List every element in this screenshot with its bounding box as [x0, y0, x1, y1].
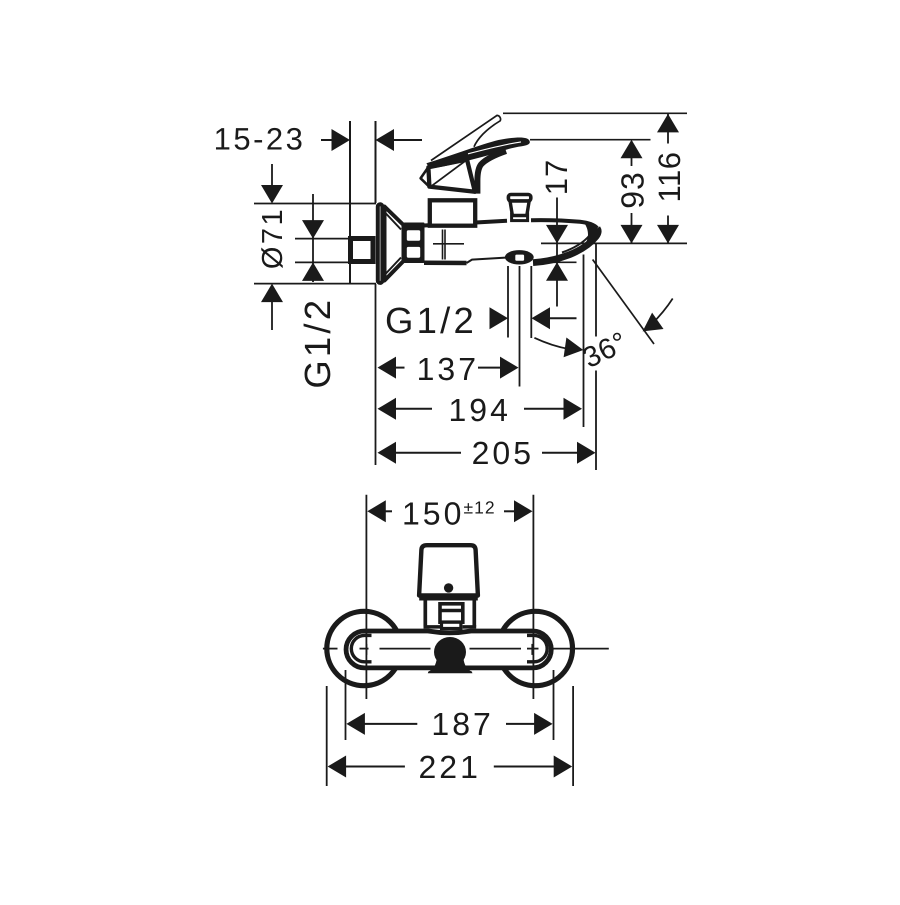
- dim 150 right stub: [504, 510, 515, 512]
- centerline segment a: [323, 648, 338, 650]
- dim 137 arrow left: [378, 357, 397, 379]
- svg-text:205: 205: [472, 435, 534, 471]
- dim G1/2 outlet arrow left: [532, 307, 551, 329]
- dim 187 extension line right: [553, 670, 555, 740]
- aerator: [505, 250, 534, 264]
- wall line right upper: [375, 121, 377, 203]
- dim 93 line lower: [631, 213, 633, 243]
- dim 116 arrow up: [657, 114, 679, 132]
- dim 15-23 text: [214, 122, 306, 157]
- dim 17 leader line: [556, 198, 558, 307]
- dim 93 line upper: [631, 141, 633, 166]
- centerline segment f: [550, 648, 609, 650]
- handle front dot: [444, 583, 453, 592]
- dim 187 right stub: [506, 723, 536, 725]
- lever base joint line b: [421, 167, 430, 187]
- dim 187 arrow left: [346, 713, 365, 735]
- reference line handle closed top: [530, 139, 651, 141]
- dim 221 right stub: [494, 766, 555, 768]
- dim G1/2 wall arrow up: [302, 262, 324, 281]
- dim 194 arrow left: [378, 398, 397, 420]
- dim 15-23 line right stub: [392, 139, 422, 141]
- reference line outlet bottom: [533, 261, 577, 263]
- dim 221 extension line left: [326, 686, 328, 786]
- dim 150 extension line right: [532, 495, 534, 699]
- svg-text:17: 17: [539, 159, 574, 195]
- dim 221 arrow right: [554, 756, 573, 778]
- dim 93 arrow up: [621, 140, 643, 159]
- dim 137 text: [417, 351, 479, 387]
- escutcheon cone: [385, 207, 404, 281]
- dim 150 extension line left: [365, 495, 367, 699]
- dim 150 arrow left: [367, 500, 386, 522]
- diverter knob cap: [508, 195, 530, 201]
- dim Ø71 upper leader line: [271, 164, 273, 200]
- dim G1/2 wall rotated text: [297, 297, 338, 389]
- dim 116 text: [652, 152, 687, 203]
- angle 36 arc right: [651, 299, 673, 325]
- escutcheon plate: [378, 204, 383, 283]
- faucet body white fill: [424, 220, 598, 263]
- svg-text:36°: 36°: [578, 326, 633, 375]
- neck ladder rung: [440, 609, 463, 612]
- svg-text:194: 194: [449, 392, 511, 428]
- svg-text:187: 187: [431, 706, 493, 742]
- handle front parting line: [419, 596, 478, 601]
- dim 205 arrow right: [577, 442, 596, 464]
- svg-text:G1/2: G1/2: [385, 300, 477, 341]
- dim Ø71 text: [257, 207, 289, 269]
- pipe nipple through wall: [351, 239, 374, 262]
- body bottom step: [467, 258, 506, 263]
- handle front skirt side right: [472, 599, 476, 627]
- angle 36 vertical reference line: [583, 255, 585, 428]
- dim 116 line lower: [667, 216, 669, 244]
- dim 194 right stub: [524, 408, 565, 410]
- skirt bottom edge right: [463, 625, 477, 629]
- outlet center extension line: [519, 266, 521, 387]
- diverter knob body: [510, 201, 529, 216]
- handle front trapezoid: [419, 545, 478, 595]
- dim 93 arrow down: [621, 225, 643, 244]
- union circle left: [327, 611, 401, 685]
- dim 205 left stub: [394, 452, 461, 454]
- spout tip and mouth rim: [533, 228, 598, 262]
- body capsule: [346, 631, 551, 668]
- svg-text:G1/2: G1/2: [297, 297, 338, 389]
- dim 137 left stub: [394, 367, 405, 369]
- dim 93 text: [615, 171, 651, 209]
- svg-text:Ø71: Ø71: [257, 207, 289, 269]
- capsule inner arc left: [351, 635, 371, 661]
- body partition line b: [444, 230, 446, 260]
- dim Ø71 arrow up: [261, 284, 283, 303]
- outlet extension line left: [507, 266, 509, 338]
- outlet extension line right: [530, 266, 532, 338]
- centerline segment e: [527, 648, 539, 650]
- svg-text:150: 150: [402, 496, 464, 532]
- nut window upper: [407, 230, 420, 240]
- centerline tick right: [531, 644, 533, 655]
- dim 17 text: [539, 159, 574, 195]
- escutcheon cone inner line top: [385, 213, 401, 230]
- dim 205 arrow left: [378, 442, 397, 464]
- reference line spout bottom: [541, 242, 687, 244]
- dim 15-23 line left stub: [321, 139, 333, 141]
- dim G1/2 wall leader line: [312, 194, 314, 282]
- skirt bottom edge left: [424, 625, 441, 629]
- body partition line a: [442, 230, 444, 260]
- lever base joint line a: [432, 160, 467, 186]
- neck ladder: [440, 604, 463, 622]
- wall line left: [349, 121, 351, 284]
- dim 221 arrow left: [328, 756, 347, 778]
- lever handle: [426, 138, 529, 169]
- dim 221 extension line right: [572, 686, 574, 786]
- dim 187 text: [431, 706, 493, 742]
- body top edge: [424, 221, 507, 226]
- centerline tick left: [365, 644, 367, 655]
- svg-text:116: 116: [652, 152, 687, 203]
- dim 116 arrow down: [657, 225, 679, 244]
- svg-text:221: 221: [419, 749, 481, 785]
- dim 150 text: [402, 496, 496, 532]
- dim 221 text: [419, 749, 481, 785]
- escutcheon cone inner line bottom: [385, 258, 401, 275]
- dim 194 left stub: [394, 408, 432, 410]
- dim 15-23 arrow left: [376, 129, 395, 151]
- dim 205 text: [472, 435, 534, 471]
- dim Ø71 bottom extension line: [254, 283, 376, 285]
- svg-text:137: 137: [417, 351, 479, 387]
- dim 150 arrow right: [514, 500, 533, 522]
- lever band highlight: [468, 142, 521, 154]
- lever base: [428, 160, 475, 192]
- svg-text:93: 93: [615, 171, 651, 209]
- svg-text:15-23: 15-23: [214, 122, 306, 157]
- spout mouth inner line: [562, 236, 590, 253]
- svg-text:±12: ±12: [464, 498, 496, 518]
- union circle right: [498, 611, 572, 685]
- dim 205 right stub: [542, 452, 578, 454]
- dim 221 left stub: [344, 766, 405, 768]
- center union blob flare: [428, 658, 473, 673]
- angle 36 text: [578, 326, 633, 375]
- neck foot: [442, 622, 461, 628]
- wall extension line lower: [375, 284, 377, 465]
- angle 36 arc right arrowhead: [643, 313, 664, 332]
- reference line handle raised top: [503, 112, 687, 114]
- nut window lower: [407, 247, 420, 258]
- spout tip extension line lower: [595, 371, 597, 471]
- dim 187 extension line left: [345, 670, 347, 740]
- centerline segment b: [360, 648, 369, 650]
- dim G1/2 wall top line: [295, 238, 349, 240]
- dim 137 arrow right: [500, 357, 519, 379]
- dim 17 arrow down: [546, 225, 568, 244]
- dim G1/2 wall arrow down: [302, 220, 324, 239]
- angle 36 arc left arrowhead: [564, 338, 584, 358]
- dim Ø71 lower leader line: [271, 288, 273, 330]
- spout top edge: [531, 220, 597, 228]
- dim G1/2 outlet right stub: [548, 317, 577, 319]
- dim 187 left stub: [363, 723, 417, 725]
- aerator window: [515, 255, 524, 261]
- dim 116 line upper: [667, 114, 669, 144]
- body centerline: [433, 243, 464, 245]
- dim G1/2 wall bottom line: [295, 261, 349, 263]
- dim Ø71 top extension line: [254, 203, 376, 205]
- diverter knob flange: [512, 214, 528, 221]
- angle 36 diagonal line: [593, 260, 654, 345]
- cartridge collar: [430, 200, 475, 225]
- centerline segment c: [380, 648, 431, 650]
- dim G1/2 outlet arrow right: [490, 307, 509, 329]
- dim 194 text: [449, 392, 511, 428]
- nut: [404, 223, 425, 264]
- dim 187 arrow right: [534, 713, 553, 735]
- dim Ø71 arrow down: [261, 185, 283, 204]
- angle 36 arc left: [534, 338, 568, 349]
- dim G1/2 outlet text: [385, 300, 477, 341]
- center union blob: [434, 637, 466, 667]
- dim 137 right stub: [478, 367, 502, 369]
- dim 194 arrow right: [564, 398, 583, 420]
- dim 150 left stub: [384, 510, 392, 512]
- handle front skirt side left: [423, 599, 427, 627]
- lever raised position outline: [431, 115, 501, 160]
- spout tip solid fill: [581, 223, 599, 251]
- capsule inner arc right: [527, 635, 547, 661]
- dim 17 arrow up: [546, 262, 568, 281]
- body bottom edge: [424, 261, 467, 266]
- lever neck: [477, 151, 506, 194]
- centerline segment d: [470, 648, 522, 650]
- spout tip extension line upper: [595, 244, 597, 337]
- dim 15-23 arrow right: [332, 129, 351, 151]
